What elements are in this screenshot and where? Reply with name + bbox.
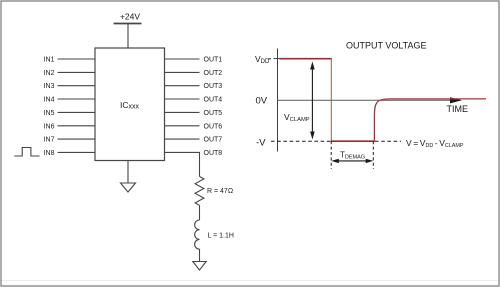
svg-text:OUT2: OUT2 xyxy=(204,70,223,77)
wire IN4 xyxy=(58,98,96,100)
svg-text:TIME: TIME xyxy=(447,104,469,114)
svg-text:IN5: IN5 xyxy=(44,110,55,117)
inductor L xyxy=(195,220,200,249)
resistor R xyxy=(195,177,204,206)
op-amp box IC U1 xyxy=(95,48,165,161)
TDEMAG dimension arrow xyxy=(331,159,373,163)
svg-text:0V: 0V xyxy=(256,96,268,107)
svg-text:L = 1.1H: L = 1.1H xyxy=(208,232,234,239)
dashed -V level line xyxy=(271,140,331,142)
wire IN6 xyxy=(58,125,96,127)
svg-text:OUT7: OUT7 xyxy=(204,137,223,144)
wire IN5 xyxy=(58,111,96,113)
svg-text:OUT8: OUT8 xyxy=(204,150,223,157)
svg-text:IN7: IN7 xyxy=(44,137,55,144)
ground IC xyxy=(121,183,136,192)
wire IN2 xyxy=(58,71,96,73)
svg-text:+24V: +24V xyxy=(120,12,140,22)
wire IC to ground xyxy=(127,161,129,184)
waveform output voltage xyxy=(280,59,486,142)
wire OUT4 xyxy=(165,98,200,100)
wire OUT1 xyxy=(165,58,200,60)
wire OUT2 xyxy=(165,71,200,73)
svg-text:IN6: IN6 xyxy=(44,123,55,130)
svg-text:OUT4: OUT4 xyxy=(204,97,223,104)
VCLAMP dimension arrow xyxy=(310,62,315,140)
wire IN7 xyxy=(58,138,96,140)
svg-text:-V: -V xyxy=(256,137,266,148)
svg-text:IN8: IN8 xyxy=(44,150,55,157)
wire +24V to IC top xyxy=(127,24,129,49)
wire OUT7 xyxy=(165,138,200,140)
wire OUT3 xyxy=(165,85,200,87)
svg-text:IN3: IN3 xyxy=(44,83,55,90)
svg-text:OUTPUT VOLTAGE: OUTPUT VOLTAGE xyxy=(346,41,427,51)
wire OUT5 xyxy=(165,111,200,113)
svg-text:IN1: IN1 xyxy=(44,57,55,64)
dashed marker t2 demag end xyxy=(372,141,374,169)
svg-text:OUT5: OUT5 xyxy=(204,110,223,117)
tick VDD xyxy=(274,58,282,60)
svg-text:IN2: IN2 xyxy=(44,70,55,77)
wire OUT8 to load xyxy=(165,152,200,176)
graph time axis 0V line xyxy=(278,99,452,101)
svg-text:IN4: IN4 xyxy=(44,97,55,104)
ground load xyxy=(193,262,206,271)
svg-text:R = 47Ω: R = 47Ω xyxy=(207,188,233,195)
wire IN3 xyxy=(58,85,96,87)
time axis arrowhead xyxy=(450,97,462,103)
svg-text:OUT3: OUT3 xyxy=(204,83,223,90)
graph voltage axis xyxy=(277,49,279,152)
wire R to L xyxy=(199,205,201,220)
wire IN1 xyxy=(58,58,96,60)
dash after VDD label xyxy=(268,58,271,60)
+24V supply rail bar xyxy=(114,23,142,25)
wire OUT6 xyxy=(165,125,200,127)
svg-text:OUT1: OUT1 xyxy=(204,57,223,64)
svg-text:OUT6: OUT6 xyxy=(204,123,223,130)
wire L to ground xyxy=(199,249,201,261)
dashed marker t1 demag start xyxy=(330,141,332,169)
input pulse symbol xyxy=(14,148,39,157)
wire IN8 xyxy=(58,151,96,153)
dashed -V level line right part xyxy=(375,140,401,142)
